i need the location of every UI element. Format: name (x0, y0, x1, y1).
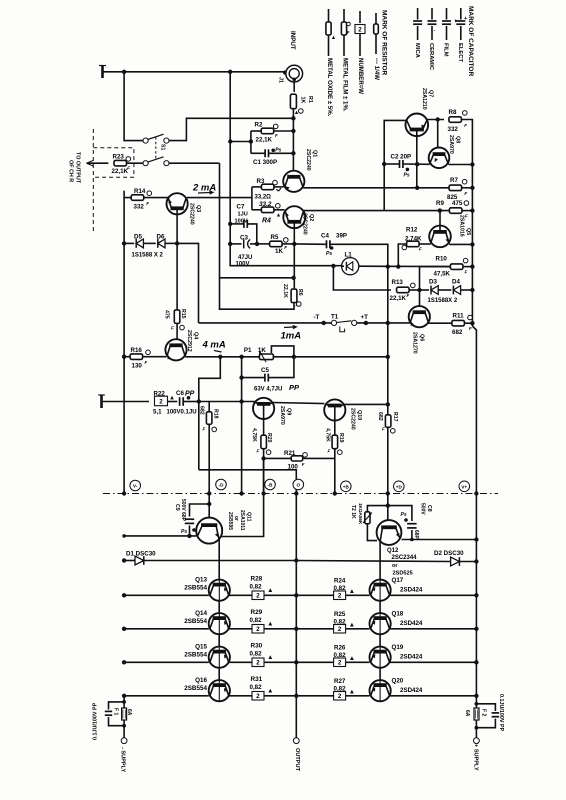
node Q12 collector bus (474, 537, 478, 541)
svg-text:2SD424: 2SD424 (400, 586, 423, 593)
node R6 top (291, 276, 295, 280)
svg-text:2SD424: 2SD424 (400, 687, 423, 694)
potentiometer P1 1K (244, 346, 294, 362)
switch S1 upper pole (143, 134, 169, 143)
wire Q2 base down (293, 222, 295, 244)
svg-text:682: 682 (377, 412, 383, 421)
wire output bus (295, 494, 297, 738)
wire Q3 emitter to T1 line (177, 243, 198, 323)
svg-text:2SA1270: 2SA1270 (412, 332, 418, 354)
svg-text:1KΩA56K: 1KΩA56K (358, 503, 363, 525)
svg-text:2SA970: 2SA970 (279, 406, 285, 425)
switch S1 link dashed and label (156, 137, 166, 160)
svg-text:2SA1210: 2SA1210 (421, 88, 427, 110)
svg-text:F: F (127, 165, 130, 170)
transistor Q19 2SD424 (370, 644, 477, 668)
svg-text:F: F (284, 245, 287, 250)
svg-text:F: F (464, 191, 467, 196)
svg-text:0,82: 0,82 (250, 684, 263, 691)
node Q17 collector bus (474, 593, 478, 597)
node C2 left bus (382, 162, 386, 166)
resistor R17 682 (377, 412, 398, 433)
terminal minus supply (119, 738, 127, 773)
node Q15 base rail (122, 660, 126, 664)
svg-text:F 1: F 1 (113, 708, 119, 715)
svg-text:Q5: Q5 (465, 228, 471, 235)
wire left branch x230 (230, 72, 341, 266)
transistor Q16 2SB554 (124, 677, 230, 702)
capacitor C5 4.7u 63V (242, 357, 300, 393)
svg-text:R14: R14 (134, 188, 146, 195)
switch S1 lower pole (143, 157, 169, 166)
svg-text:2SB554: 2SB554 (184, 584, 207, 591)
node Q11 collector rail (122, 534, 126, 538)
svg-text:R2: R2 (255, 121, 263, 128)
transistor Q3 2SC2240 (167, 193, 202, 225)
transistor Q8 2SA970 (429, 135, 461, 168)
svg-text:Ps: Ps (181, 529, 187, 535)
node D3 left junction (417, 288, 421, 292)
wire input node down (292, 118, 294, 171)
node Q16 base rail (122, 694, 126, 698)
svg-text:R16: R16 (131, 347, 143, 354)
svg-text:C4: C4 (321, 232, 329, 239)
svg-text:Q14: Q14 (195, 610, 207, 617)
node Q2 emitter R5 C4 (292, 242, 296, 246)
capacitor C1 300P (251, 148, 294, 167)
svg-text:R22: R22 (154, 391, 166, 398)
node C4 L1 bus cross (386, 264, 390, 268)
node P1 line bus (386, 355, 390, 359)
resistor R24 0.82 (296, 577, 369, 599)
svg-text:C9: C9 (174, 504, 180, 511)
svg-text:2SC2240: 2SC2240 (305, 149, 311, 171)
rail junction dots (122, 491, 479, 495)
svg-text:F: F (257, 449, 260, 454)
svg-text:Ps: Ps (326, 251, 332, 257)
svg-text:2SA1011: 2SA1011 (239, 510, 245, 531)
svg-text:2SD525: 2SD525 (393, 571, 413, 577)
svg-text:2SA1016: 2SA1016 (459, 215, 465, 237)
node C3 right (255, 242, 259, 246)
legend: resistor symbol 1/4W (374, 13, 379, 54)
svg-text:2SB554: 2SB554 (184, 618, 207, 625)
svg-text:0.1JU/100V PP: 0.1JU/100V PP (498, 694, 504, 732)
node Q19 collector bus (474, 660, 478, 664)
svg-text:2: 2 (256, 693, 260, 700)
svg-text:F: F (275, 133, 278, 138)
wire D3 junction to Q6 collector (419, 290, 421, 307)
svg-text:R29: R29 (251, 609, 263, 616)
svg-text:C2 20P: C2 20P (391, 153, 412, 160)
svg-text:FILM: FILM (443, 43, 449, 57)
svg-text:-D: -D (219, 483, 225, 488)
node R20 bottom (261, 456, 265, 460)
svg-text:Q20: Q20 (392, 678, 404, 685)
svg-text:C6: C6 (176, 390, 184, 397)
node P1 left junction (239, 355, 243, 359)
svg-text:2: 2 (256, 626, 260, 633)
node R11 right bus (470, 321, 474, 325)
node D4 right bus (470, 288, 474, 292)
wire Q1 collector to R7 line (303, 187, 418, 189)
svg-text:0,82: 0,82 (334, 652, 347, 659)
svg-text:100V: 100V (235, 218, 248, 224)
capacitor C3 47u 100V elect (230, 235, 257, 268)
node fuse top right (475, 702, 479, 730)
transistor Q4 2SC2912 (165, 330, 198, 360)
svg-text:METAL OXIDE ± 5%.: METAL OXIDE ± 5%. (326, 58, 333, 117)
svg-text:C3: C3 (240, 235, 248, 242)
node Q8 collector bus (470, 162, 474, 166)
svg-text:2: 2 (338, 593, 342, 600)
svg-text:1K: 1K (275, 248, 283, 255)
svg-text:130: 130 (132, 363, 143, 370)
svg-text:100V: 100V (236, 261, 250, 267)
wire S1 upper to input node (169, 118, 293, 140)
svg-text:Q9: Q9 (285, 408, 291, 415)
node P1 right junction (292, 355, 296, 359)
svg-text:R8: R8 (449, 109, 457, 116)
transistor Q6 2SA1270 (409, 306, 430, 354)
wire x124 down to switch S1 (124, 72, 143, 141)
wire Q11 collector to left rail (124, 535, 197, 537)
svg-text:39P: 39P (336, 232, 347, 239)
capacitor C6 0.1u 100V (167, 390, 199, 416)
node junction at J1 (283, 70, 287, 74)
node C9 tap (207, 502, 211, 506)
svg-text:0,82: 0,82 (334, 686, 347, 693)
svg-text:6A: 6A (126, 709, 132, 716)
inductor L1 limiter (342, 251, 452, 275)
svg-text:R11: R11 (453, 312, 465, 319)
svg-text:F: F (347, 30, 350, 35)
test point circle V+ (459, 481, 470, 492)
svg-text:R31: R31 (251, 676, 263, 683)
wire J1 to R1 (293, 82, 295, 92)
capacitor C8 68P 500V (388, 503, 432, 540)
svg-text:D2 DSC30: D2 DSC30 (434, 550, 464, 557)
svg-text:2: 2 (256, 660, 260, 667)
resistor R5 1K (257, 234, 294, 255)
transistor Q10 2SC2240 (324, 399, 362, 429)
wire Q8 collector to bus (449, 164, 473, 166)
transistor Q12 2SC2344 (377, 520, 418, 576)
resistor R19 4.75K (325, 421, 345, 494)
svg-text:1K: 1K (258, 347, 266, 354)
label TO OUTPUT OF CH R (68, 152, 81, 184)
svg-text:F: F (146, 201, 149, 206)
svg-text:Q18: Q18 (392, 611, 404, 618)
svg-text:0,82: 0,82 (250, 617, 263, 624)
transistor Q17 2SD424 (370, 577, 477, 601)
resistor R30 0.82 (229, 643, 297, 667)
wire C6 node loop to Q4 line (199, 357, 221, 470)
resistor R3 33.2 (252, 178, 284, 201)
test point circle -B (265, 479, 276, 490)
svg-text:+D: +D (396, 484, 403, 489)
svg-text:332: 332 (448, 126, 459, 133)
transistor Q1 2SC2240 (283, 149, 317, 192)
svg-text:6A: 6A (464, 710, 470, 717)
svg-text:2: 2 (338, 693, 342, 700)
wire Q7 emitter down to R7 line (416, 136, 418, 188)
svg-text:D1 DSC30: D1 DSC30 (126, 550, 156, 557)
svg-text:or: or (233, 516, 239, 521)
svg-text:2: 2 (159, 398, 163, 405)
svg-text:R5: R5 (271, 234, 279, 241)
node C5 left (239, 375, 243, 379)
resistor R9 475 (384, 200, 472, 219)
node input divider junction (291, 116, 295, 120)
svg-text:47,5K: 47,5K (434, 271, 451, 278)
svg-text:0,82: 0,82 (334, 585, 347, 592)
wire R2 C1 left link (230, 131, 251, 153)
legend: resistor symbol number=W box (355, 11, 365, 56)
node R2C1 link right (249, 139, 253, 143)
svg-text:1JU: 1JU (238, 211, 248, 217)
svg-text:R4: R4 (262, 218, 271, 225)
terminal OUTPUT (293, 738, 300, 772)
svg-text:+ SUPPLY: + SUPPLY (472, 744, 478, 771)
svg-text:682: 682 (452, 329, 463, 336)
svg-text:R28: R28 (251, 576, 263, 583)
node Q13 base rail (122, 593, 126, 597)
svg-text:R1: R1 (307, 96, 313, 103)
wire left rail to fuse (123, 696, 125, 738)
dashed boundary channel R (93, 129, 134, 231)
test point circle -D (216, 479, 227, 490)
transistor Q13 2SB554 (124, 576, 230, 601)
resistor R13 22.1K (333, 266, 419, 302)
svg-text:Q12: Q12 (387, 548, 399, 554)
svg-text:F: F (302, 462, 305, 467)
svg-text:MICA: MICA (414, 43, 420, 59)
node R28 output bus (294, 593, 298, 597)
test point circle O (293, 479, 304, 490)
node C6 right junction (197, 399, 201, 403)
node Q10 collector bus (386, 402, 390, 406)
svg-text:Q10: Q10 (356, 410, 362, 420)
svg-text:OF CH R: OF CH R (68, 160, 74, 182)
wire Q10 collector to +D bus (344, 403, 387, 405)
resistor R1 1K (290, 94, 313, 118)
svg-text:2SD424: 2SD424 (400, 653, 423, 660)
ground chassis bar mid-left (98, 395, 105, 408)
wire Q12 collector to bus (402, 539, 477, 541)
svg-text:C8: C8 (426, 505, 432, 512)
svg-text:Ps: Ps (275, 148, 281, 154)
diode D1 DSC30 (124, 550, 296, 565)
svg-text:ELECT: ELECT (457, 43, 463, 62)
svg-text:S1: S1 (160, 144, 166, 150)
svg-text:0.1JU/100V PP: 0.1JU/100V PP (93, 702, 99, 740)
svg-text:R20: R20 (266, 433, 272, 443)
svg-text:500V: 500V (420, 503, 426, 515)
node D1 output bus (294, 558, 298, 562)
node Q3 base emitter junction (175, 241, 179, 245)
svg-text:R21: R21 (284, 450, 296, 457)
svg-text:METAL FILM ± 1%.: METAL FILM ± 1%. (342, 58, 349, 112)
svg-text:33,2Ω: 33,2Ω (255, 195, 272, 201)
svg-text:INPUT: INPUT (289, 31, 296, 50)
node Q5 emitter bus (470, 242, 474, 246)
svg-text:R3: R3 (257, 178, 265, 185)
node C9 bottom collector (187, 534, 191, 538)
svg-text:TO OUTPUT: TO OUTPUT (75, 152, 81, 184)
wire Q8 base (437, 120, 439, 148)
svg-text:R9: R9 (436, 200, 444, 207)
node Q8 base top (436, 117, 440, 121)
svg-text:Q4: Q4 (193, 332, 199, 339)
svg-text:2SB554: 2SB554 (184, 651, 207, 658)
svg-text:D3: D3 (429, 279, 437, 286)
svg-text:R30: R30 (251, 643, 263, 650)
svg-text:C7: C7 (237, 203, 245, 210)
svg-text:R19: R19 (338, 433, 344, 443)
legend text MARK OF RESISTOR (326, 10, 388, 117)
svg-text:1S1588 X 2: 1S1588 X 2 (132, 253, 164, 259)
svg-text:22,1K: 22,1K (112, 168, 129, 175)
svg-text:0,82: 0,82 (250, 583, 263, 590)
node Q5 collector tap (438, 208, 442, 212)
svg-text:Q3: Q3 (195, 205, 201, 212)
svg-text:R13: R13 (392, 279, 404, 286)
svg-text:Q8: Q8 (455, 136, 461, 143)
wire T1 line (199, 322, 332, 324)
transistor Q18 2SD424 (370, 611, 477, 635)
svg-text:D4: D4 (452, 279, 460, 286)
wire C6 to Q9 base (199, 401, 256, 403)
resistor R7 825 (417, 177, 472, 201)
wire Q2 emitter down to R6 (293, 244, 295, 288)
node C2 Q7 emitter (415, 162, 419, 166)
transistor Q15 2SB554 (124, 643, 230, 668)
svg-text:+: + (464, 16, 467, 22)
svg-text:2: 2 (338, 626, 342, 633)
wire Q5 emitter to bus (449, 243, 472, 245)
svg-text:2,74K: 2,74K (405, 235, 422, 242)
node R7 left (415, 186, 419, 190)
svg-text:R18: R18 (213, 409, 219, 419)
capacitor C2 20P (384, 153, 429, 178)
wire Q12 emitter base column down (379, 542, 381, 686)
resistor R27 0.82 (296, 678, 369, 700)
wire Q3 collector branch (187, 187, 252, 210)
capacitor C4 39P (294, 232, 388, 493)
wire Q4 collector to P1 (185, 356, 388, 358)
node R2 right junction (291, 129, 295, 133)
wire Q11 emitter base column down (218, 539, 220, 685)
svg-text:R17: R17 (392, 412, 398, 422)
svg-text:2SB554: 2SB554 (184, 685, 207, 692)
svg-text:PP: PP (289, 383, 300, 392)
svg-text:68P: 68P (413, 530, 419, 540)
svg-text:R25: R25 (334, 611, 346, 618)
node C1 right junction (291, 151, 295, 155)
diode D5 1S1588 (124, 233, 143, 248)
node junction top rail x124 (122, 70, 126, 74)
svg-text:O: O (297, 483, 301, 488)
wire top box to Q7 base (384, 120, 406, 210)
svg-text:2: 2 (358, 26, 362, 33)
resistor R31 0.82 (229, 676, 297, 700)
resistor R21 100 (264, 450, 335, 471)
svg-text:F: F (145, 360, 148, 365)
node Q9 base x241 (239, 399, 243, 403)
svg-text:Q2: Q2 (308, 214, 314, 221)
legend text MARK OF CAPACITOR (414, 6, 474, 76)
wire S1 feedback column (220, 163, 294, 309)
transistor Q14 2SB554 (124, 610, 230, 635)
svg-text:682: 682 (199, 406, 205, 415)
legend: capacitor symbol ceramic (428, 8, 437, 40)
node C8 bottom (410, 538, 414, 542)
svg-text:J1: J1 (278, 77, 284, 83)
diode D4 1S1588 (428, 279, 473, 304)
test point circle +D (394, 481, 405, 492)
trimmer T2 1K (350, 503, 388, 541)
legend: capacitor symbol film (442, 8, 451, 40)
svg-text:T2 1K: T2 1K (350, 505, 356, 519)
resistor R20 4.75K (251, 419, 272, 493)
svg-text:22,1K: 22,1K (390, 295, 407, 302)
resistor R26 0.82 (296, 644, 369, 666)
svg-text:R23: R23 (113, 154, 125, 161)
handwritten 1mA with arrow (281, 325, 302, 342)
node T2 tap (386, 503, 390, 507)
wire -D rail to Q11 base (208, 494, 210, 519)
svg-text:- SUPPLY: - SUPPLY (119, 747, 125, 773)
svg-text:Q16: Q16 (195, 677, 207, 684)
svg-text:NUMBER=W: NUMBER=W (357, 58, 364, 94)
svg-text:100V0.1JU: 100V0.1JU (167, 410, 197, 416)
fuse F1 6A (113, 708, 133, 720)
transistor Q5 2SA1016 (429, 211, 471, 248)
node R12 L1 junction (396, 264, 400, 268)
node R31 output bus (294, 694, 298, 698)
wire left rail upper section (123, 198, 125, 494)
svg-text:475: 475 (163, 310, 169, 319)
capacitor bypass 0.1u 100V right (476, 694, 504, 732)
resistor R15 475 (163, 243, 186, 338)
node C3 left (228, 242, 232, 246)
svg-text:Ps: Ps (401, 512, 407, 518)
svg-text:F: F (465, 270, 468, 275)
svg-text:2SB595: 2SB595 (227, 512, 233, 530)
capacitor C7 1u 100V (230, 203, 257, 244)
svg-text:D5: D5 (134, 233, 142, 240)
svg-text:R15: R15 (180, 309, 186, 319)
wire Q9 collector to Q10 base (273, 403, 325, 404)
terminal plus supply (472, 738, 479, 771)
wire S1 lower to feedback column (169, 162, 220, 164)
svg-text:47JU: 47JU (238, 255, 252, 261)
connector J1 input jack (278, 65, 303, 83)
resistor R28 0.82 (229, 576, 297, 600)
svg-text:-T: -T (314, 314, 320, 321)
label INPUT (289, 31, 296, 50)
svg-text:22,1K: 22,1K (256, 137, 273, 144)
svg-text:R26: R26 (334, 644, 346, 651)
transistor Q11 2SA1011 (196, 510, 251, 544)
svg-text:F: F (419, 247, 422, 252)
node C7 left (228, 222, 232, 226)
svg-text:F: F (407, 293, 410, 298)
diode D2 DSC30 (296, 550, 476, 566)
fuse F2 6A (464, 708, 487, 720)
ground chassis bar top-left (99, 66, 106, 79)
